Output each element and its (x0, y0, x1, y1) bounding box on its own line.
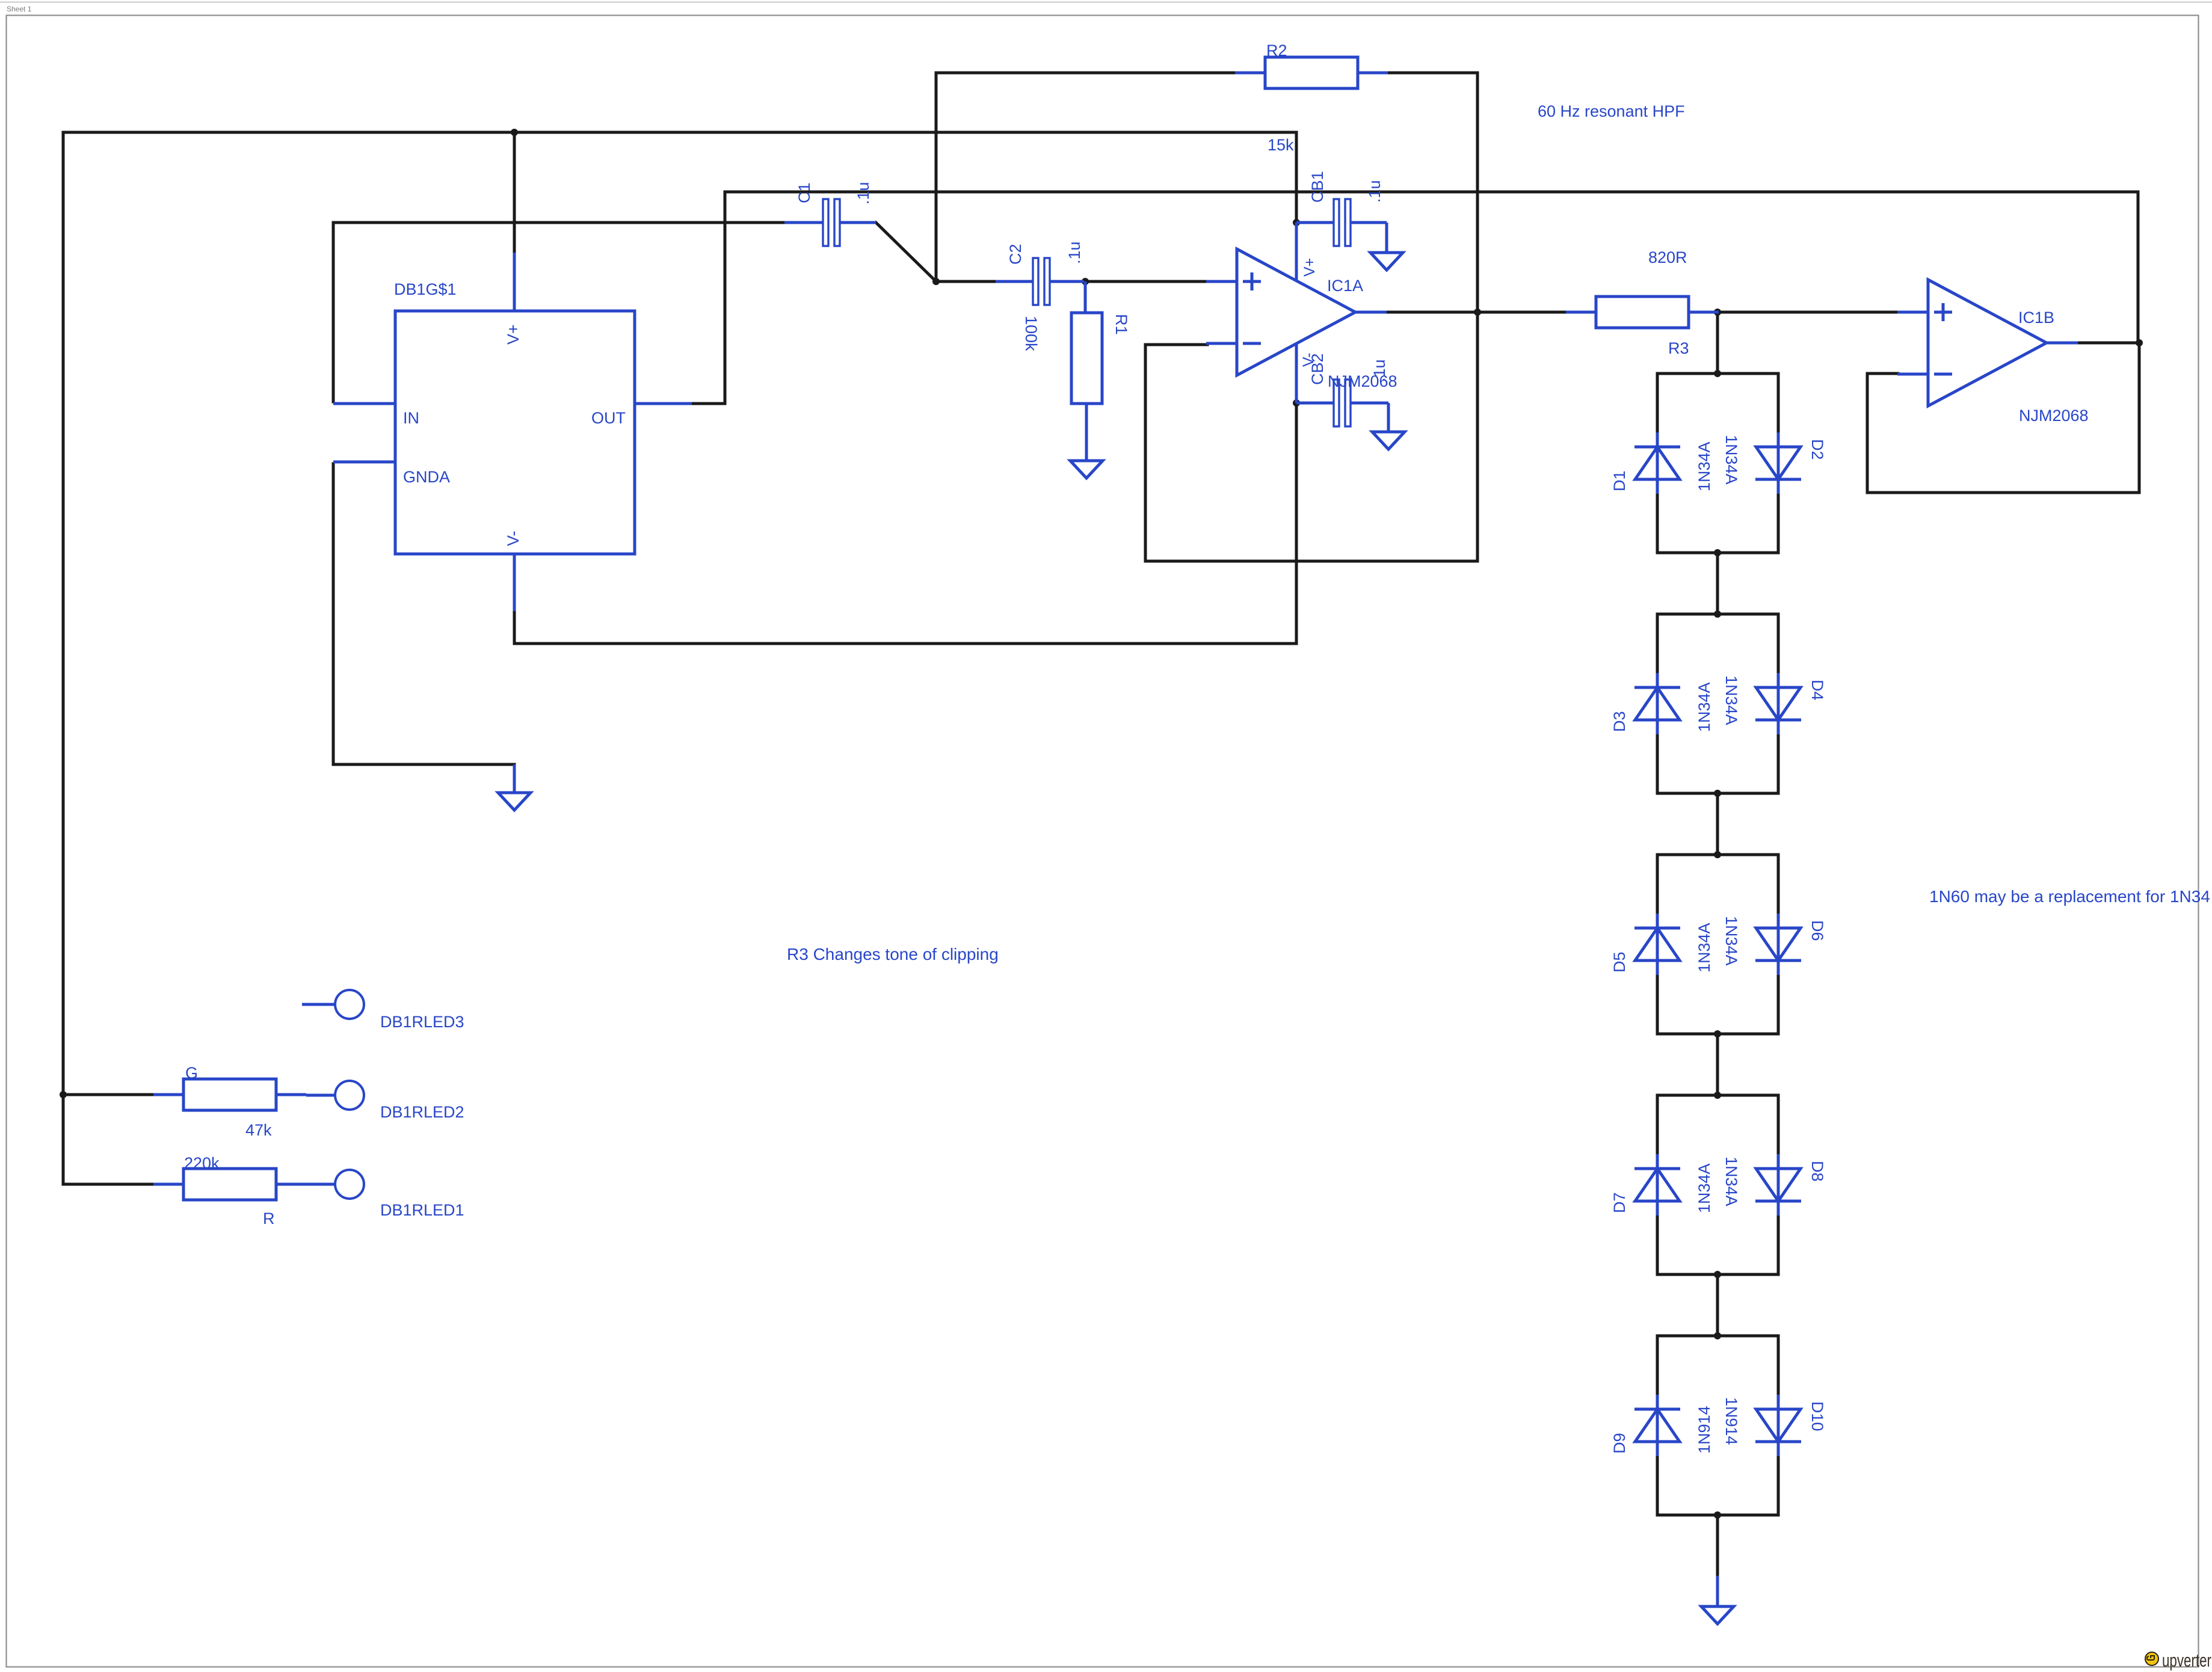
wire diode pair 2 top rail (1657, 613, 1778, 616)
junction R2/C1/C2 node (932, 278, 940, 285)
wire R2 left lead drop to C1/C2 node (936, 73, 1235, 281)
svg-text:.1u: .1u (854, 182, 872, 204)
svg-text:.1u: .1u (1366, 180, 1384, 203)
wire D3 bottom stub (1656, 734, 1659, 793)
wire D6 bottom stub (1777, 975, 1780, 1034)
svg-text:R1: R1 (1112, 314, 1130, 335)
wire diode pair 2 bottom rail (1657, 792, 1778, 795)
port DB1RLED2 (306, 1081, 364, 1110)
wire link pair 1 to pair 2 (1716, 553, 1719, 614)
DB1G$1 pin OUT (635, 402, 692, 405)
svg-text:100k: 100k (1022, 316, 1040, 351)
svg-text:D7: D7 (1610, 1192, 1628, 1213)
wire C2 right node to IC1A + input (1082, 280, 1207, 283)
ground under R1 (1070, 404, 1103, 478)
wire IC1B feedback to - input (1867, 343, 2139, 493)
wire V+ rail: DB1G$1 V+ / LED column to IC1A V+ node (63, 132, 1296, 223)
resistor 47k body (153, 1079, 306, 1110)
svg-text:1N34A: 1N34A (1695, 923, 1713, 973)
svg-text:upverter: upverter (2162, 1650, 2211, 1671)
ground diode ladder ground (1701, 1576, 1734, 1624)
wire D2 top stub (1777, 373, 1780, 432)
wire R3 node down to diode ladder (1716, 312, 1719, 373)
diode D1 1N34A (anode down, points up) (1634, 432, 1680, 494)
wire diode pair 1 bottom rail (1657, 552, 1778, 555)
svg-text:DB1G$1: DB1G$1 (394, 280, 457, 298)
wire D4 bottom stub (1777, 734, 1780, 793)
wire input net: C1 left to DB1G$1 IN (333, 223, 784, 402)
wire IC1B output wire (2078, 342, 2139, 345)
IC DB1G$1 block (395, 311, 635, 554)
wire IC1A output to R3 (1384, 311, 1568, 314)
wire D5 top stub (1656, 855, 1659, 914)
diode D4 1N34A (anode up, points down) (1755, 673, 1801, 734)
svg-text:GNDA: GNDA (403, 468, 450, 486)
wire diagonal C1 right to C2 node (876, 223, 936, 281)
svg-text:1N34A: 1N34A (1695, 682, 1713, 732)
svg-text:1N34A: 1N34A (1695, 441, 1713, 491)
wire DB1G$1 OUT up to top rail across to IC1B output node (692, 192, 2138, 404)
wire diode pair 4 bottom rail (1657, 1273, 1778, 1276)
svg-text:D1: D1 (1610, 470, 1628, 491)
upverter logo (2145, 1650, 2211, 1671)
svg-text:R: R (263, 1209, 275, 1228)
wire diode pair 5 bottom rail (1657, 1514, 1778, 1517)
svg-text:IC1A: IC1A (1327, 277, 1363, 295)
capacitor C2 (996, 258, 1084, 305)
svg-text:15k: 15k (1268, 136, 1294, 154)
wire D1 bottom stub (1656, 494, 1659, 553)
svg-text:D2: D2 (1808, 439, 1826, 460)
svg-text:G: G (185, 1064, 198, 1082)
svg-text:DB1RLED3: DB1RLED3 (380, 1013, 464, 1031)
wire DB1G$1 V- to IC1A V- / CB2 node (514, 404, 1296, 644)
svg-text:OUT: OUT (591, 409, 626, 427)
svg-text:D9: D9 (1610, 1433, 1628, 1454)
wire link pair 4 to pair 5 (1716, 1274, 1719, 1336)
ground CB1 ground (1370, 223, 1403, 270)
junction diode pair 4 bottom node (1714, 1271, 1721, 1278)
wire D3 top stub (1656, 614, 1659, 673)
wire D7 bottom stub (1656, 1216, 1659, 1274)
wire diode pair 3 top rail (1657, 853, 1778, 856)
wire ladder bottom to ground (1716, 1515, 1719, 1576)
diode D2 1N34A (anode up, points down) (1755, 432, 1801, 494)
capacitor CB1 (1296, 199, 1387, 246)
wire R3 node to IC1B + input (1716, 311, 1898, 314)
diode D6 1N34A (anode up, points down) (1755, 914, 1801, 975)
wire D8 top stub (1777, 1095, 1780, 1154)
capacitor C1 (784, 199, 876, 246)
svg-text:1N34A: 1N34A (1722, 675, 1740, 725)
wire GNDA to ground (333, 464, 514, 765)
svg-text:DB1RLED2: DB1RLED2 (380, 1103, 464, 1121)
junction IC1A V- / CB2 node (1293, 399, 1300, 407)
diode D8 1N34A (anode up, points down) (1755, 1154, 1801, 1216)
IC1A V+ pin (1295, 223, 1298, 281)
svg-text:DB1RLED1: DB1RLED1 (380, 1201, 464, 1219)
wire D6 top stub (1777, 855, 1780, 914)
wire diode pair 5 top rail (1657, 1335, 1778, 1338)
wire D9 top stub (1656, 1336, 1659, 1395)
svg-text:NJM2068: NJM2068 (2019, 407, 2089, 425)
wire C2 left node wire (936, 280, 996, 283)
wire link pair 2 to pair 3 (1716, 793, 1719, 855)
junction diode pair 2 top node (1714, 610, 1721, 618)
svg-text:NJM2068: NJM2068 (1328, 372, 1397, 390)
svg-text:820R: 820R (1648, 248, 1687, 266)
junction IC1B output node (2136, 339, 2143, 346)
op-amp IC1A NJM2068 (1206, 249, 1387, 375)
junction diode pair 2 bottom node (1714, 790, 1721, 797)
wire D5 bottom stub (1656, 975, 1659, 1034)
svg-text:V-: V- (1300, 352, 1317, 367)
capacitor CB2 (1296, 380, 1388, 426)
junction V+ tap to DB1RLED2 (60, 1091, 67, 1098)
diode D10 1N914 (anode up, points down) (1755, 1395, 1801, 1456)
wire D4 top stub (1777, 614, 1780, 673)
junction diode pair 1 top node (1714, 370, 1721, 377)
junction R3 / IC1B+ / ladder node (1714, 309, 1721, 316)
wire diode pair 4 top rail (1657, 1094, 1778, 1097)
svg-text:CB1: CB1 (1308, 171, 1326, 203)
resistor R2 body (1235, 57, 1388, 88)
svg-text:1N60 may be a replacement for: 1N60 may be a replacement for 1N34 (1929, 887, 2210, 906)
ground under DB1G$1 GNDA (498, 764, 531, 810)
DB1G$1 pin V- (513, 554, 516, 611)
svg-text:R3: R3 (1668, 339, 1689, 357)
diode D5 1N34A (anode down, points up) (1634, 914, 1680, 975)
svg-text:R3 Changes tone of clipping: R3 Changes tone of clipping (787, 945, 999, 964)
svg-text:D8: D8 (1808, 1161, 1826, 1182)
wire V+ drop to DB1G$1 (513, 132, 516, 253)
resistor R1 100k vertical (1071, 281, 1102, 404)
wire diode pair 3 bottom rail (1657, 1033, 1778, 1036)
junction IC1A V+ / CB1 node (1293, 219, 1300, 226)
svg-text:1N34A: 1N34A (1722, 435, 1740, 485)
svg-text:47k: 47k (245, 1121, 272, 1139)
wire D8 bottom stub (1777, 1216, 1780, 1274)
DB1G$1 pin IN (333, 402, 395, 405)
svg-text:R2: R2 (1266, 41, 1287, 60)
wire left V+ riser down to DB1RLED1 resistor (63, 132, 153, 1184)
diode D3 1N34A (anode down, points up) (1634, 673, 1680, 734)
wire tap to DB1RLED2 resistor (63, 1093, 153, 1096)
wire D7 top stub (1656, 1095, 1659, 1154)
svg-text:C1: C1 (795, 182, 813, 203)
svg-text:D6: D6 (1808, 920, 1826, 941)
resistor 220k body (153, 1169, 306, 1200)
svg-text:D10: D10 (1808, 1401, 1826, 1431)
DB1G$1 pin GNDA (333, 461, 395, 464)
DB1G$1 pin V+ (513, 253, 516, 311)
svg-text:1N34A: 1N34A (1722, 916, 1740, 966)
junction IC1A output node (1474, 309, 1481, 316)
diode D9 1N914 (anode down, points up) (1634, 1395, 1680, 1456)
svg-text:V+: V+ (1301, 258, 1318, 277)
ground CB2 ground (1372, 403, 1405, 449)
svg-text:1N34A: 1N34A (1695, 1163, 1713, 1213)
junction C2/R1/IC1A+ node (1082, 278, 1089, 285)
junction diode pair 1 bottom node (1714, 549, 1721, 556)
wire D2 bottom stub (1777, 494, 1780, 553)
svg-text:1N34A: 1N34A (1722, 1157, 1740, 1206)
wire diode pair 1 top rail (1657, 372, 1778, 375)
svg-text:C2: C2 (1006, 244, 1024, 265)
port DB1RLED3 (302, 990, 364, 1019)
junction diode pair 5 top node (1714, 1332, 1721, 1339)
wire R2 right / IC1A feedback loop to - input (1145, 73, 1477, 561)
port DB1RLED1 (306, 1170, 364, 1199)
svg-text:D3: D3 (1610, 711, 1628, 732)
junction diode pair 3 top node (1714, 851, 1721, 858)
junction diode pair 3 bottom node (1714, 1030, 1721, 1037)
svg-text:.1u: .1u (1065, 241, 1083, 264)
op-amp IC1B NJM2068 (1897, 280, 2078, 406)
svg-text:D5: D5 (1610, 951, 1628, 973)
svg-text:V+: V+ (504, 324, 522, 345)
wire D1 top stub (1656, 373, 1659, 432)
svg-text:1N914: 1N914 (1695, 1406, 1713, 1454)
junction diode pair 4 top node (1714, 1092, 1721, 1099)
svg-text:IN: IN (403, 409, 419, 427)
junction V+ net at DB1G$1 drop (511, 129, 518, 136)
resistor R3 body (1566, 297, 1719, 328)
svg-text:1N914: 1N914 (1722, 1397, 1740, 1445)
wire link pair 3 to pair 4 (1716, 1034, 1719, 1095)
svg-text:D4: D4 (1808, 680, 1826, 701)
diode D7 1N34A (anode down, points up) (1634, 1154, 1680, 1216)
svg-text:Sheet 1: Sheet 1 (7, 5, 32, 13)
junction diode pair 5 bottom node (1714, 1511, 1721, 1519)
svg-text:IC1B: IC1B (2018, 309, 2054, 327)
wire D9 bottom stub (1656, 1456, 1659, 1515)
IC1A V- pin (1295, 344, 1298, 403)
svg-text:V-: V- (504, 530, 522, 546)
sheet top divider line (0, 2, 2212, 3)
svg-text:220k: 220k (184, 1154, 220, 1172)
wire D10 bottom stub (1777, 1456, 1780, 1515)
svg-text:60 Hz resonant HPF: 60 Hz resonant HPF (1538, 102, 1685, 120)
wire D10 top stub (1777, 1336, 1780, 1395)
